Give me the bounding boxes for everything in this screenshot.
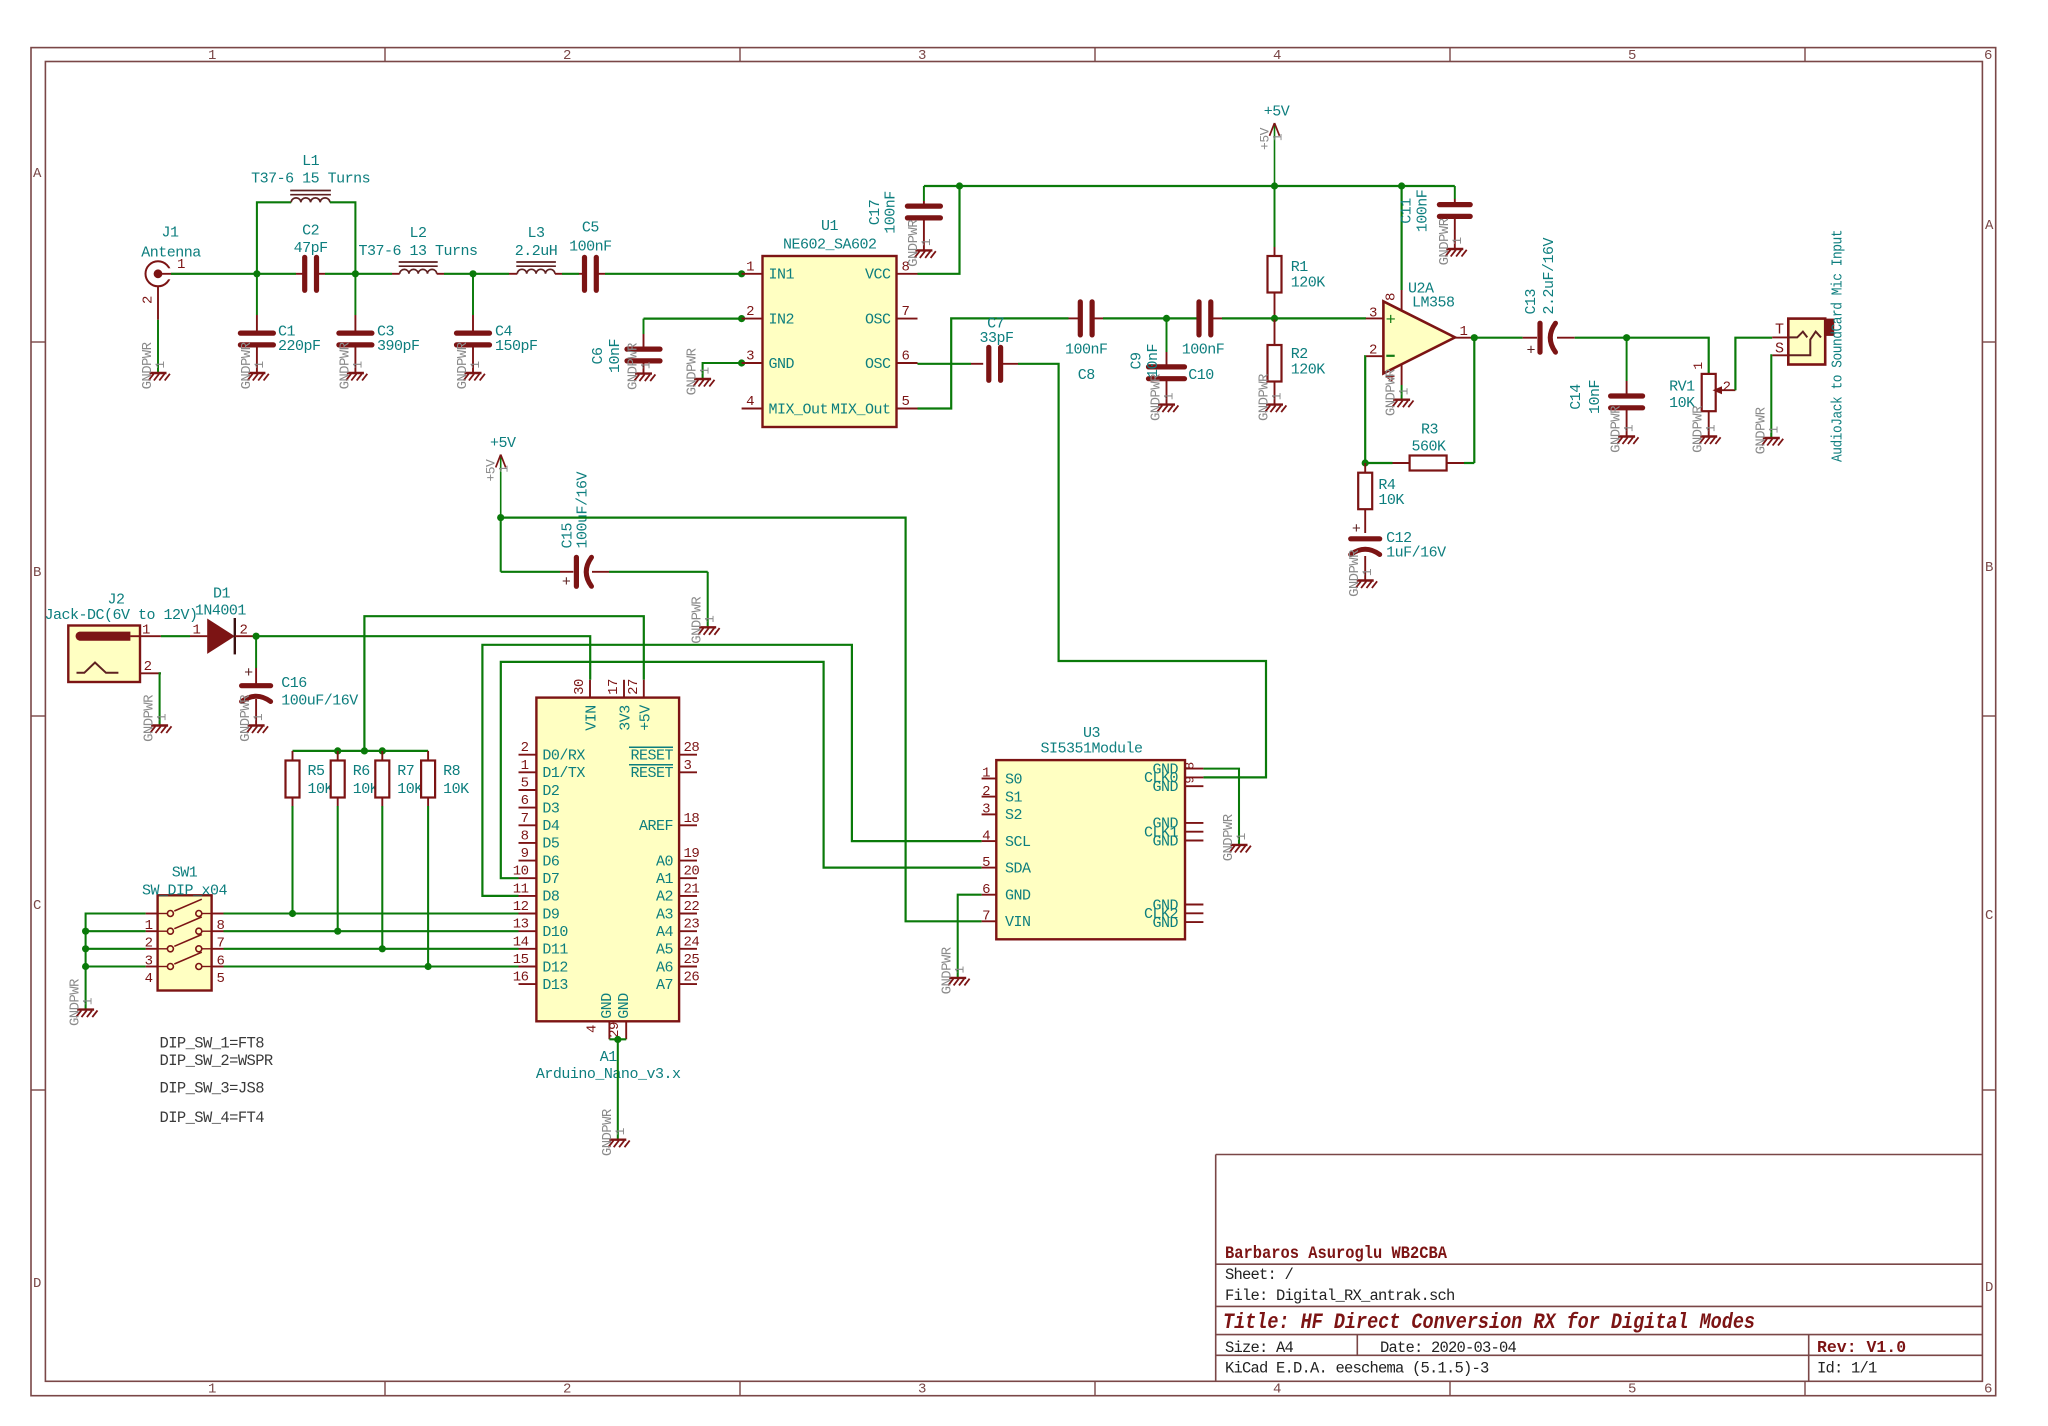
svg-text:DIP_SW_2=WSPR: DIP_SW_2=WSPR (160, 1052, 273, 1070)
svg-text:SI5351Module: SI5351Module (1040, 741, 1143, 758)
svg-text:1: 1 (982, 766, 990, 782)
junction rail at R6 (334, 747, 341, 754)
junction R5 at switch row (289, 910, 296, 917)
wire pull-up rail (293, 750, 429, 752)
svg-text:1: 1 (251, 713, 266, 721)
junction node A (antenna/C1/L1/C2) (253, 270, 260, 277)
capacitor C2 47pF (257, 223, 356, 291)
svg-text:B: B (33, 565, 41, 581)
svg-text:5: 5 (1628, 48, 1636, 64)
junction rail at U1 riser (956, 182, 963, 189)
wire SW1 row2 to Arduino D10 (224, 930, 519, 932)
svg-text:100nF: 100nF (1182, 342, 1225, 359)
svg-text:2: 2 (982, 784, 990, 800)
ground GNDPWR at R2 (1257, 373, 1287, 421)
svg-text:2: 2 (521, 740, 529, 756)
svg-text:C16: C16 (281, 675, 307, 692)
svg-text:Id: 1/1: Id: 1/1 (1817, 1360, 1877, 1378)
ground GNDPWR at C4 (455, 341, 485, 389)
svg-text:T37-6 13 Turns: T37-6 13 Turns (358, 243, 477, 260)
svg-text:C8: C8 (1078, 367, 1096, 384)
svg-text:3V3: 3V3 (618, 705, 635, 731)
resistor R3 560K (1365, 422, 1474, 471)
svg-text:NE602_SA602: NE602_SA602 (783, 237, 877, 254)
svg-text:25: 25 (684, 952, 700, 968)
wire op-amp - input to feedback node (1364, 356, 1367, 463)
ground GNDPWR at U1 pin3 (685, 347, 715, 395)
wire C8 to C10 (1103, 317, 1199, 319)
svg-text:A5: A5 (656, 942, 674, 959)
svg-text:D3: D3 (542, 800, 560, 817)
wire L1 loop right riser (330, 202, 356, 273)
resistor R1 120K (1268, 186, 1326, 318)
potentiometer RV1 10K (1669, 362, 1735, 437)
wire C3 to L2 (355, 273, 399, 275)
wire op-amp pin4 to ground (1401, 385, 1403, 400)
svg-text:4: 4 (585, 1025, 601, 1033)
svg-text:1: 1 (1460, 324, 1468, 340)
svg-text:C2: C2 (302, 223, 319, 240)
resistor R5 10K (286, 751, 334, 914)
svg-text:A1: A1 (600, 1049, 618, 1066)
svg-text:29: 29 (607, 1022, 623, 1038)
svg-text:9: 9 (521, 846, 529, 862)
wire RV1 wiper to jack tip (1735, 338, 1772, 391)
svg-text:U3: U3 (1083, 725, 1101, 742)
svg-text:1: 1 (468, 361, 483, 369)
svg-text:+5V: +5V (637, 705, 654, 731)
svg-text:R6: R6 (353, 763, 371, 780)
wire D1 to VIN node (253, 635, 256, 637)
ground GNDPWR at C6 (626, 342, 656, 390)
wire +5V rail (924, 185, 1455, 187)
svg-text:Jack-DC(6V to 12V): Jack-DC(6V to 12V) (45, 607, 198, 624)
svg-text:SW_DIP_x04: SW_DIP_x04 (142, 883, 228, 900)
svg-text:C13: C13 (1523, 288, 1540, 314)
wire Arduino D7 to SI5351 SDA (501, 662, 982, 878)
svg-text:120K: 120K (1291, 274, 1326, 291)
ground GNDPWR at C12 (1347, 549, 1377, 597)
capacitor C15 100uF/16V (501, 471, 708, 590)
svg-text:C17: C17 (867, 200, 884, 226)
svg-text:GND: GND (1152, 833, 1178, 850)
svg-text:SW1: SW1 (172, 865, 198, 882)
svg-text:10nF: 10nF (1587, 380, 1604, 414)
wire SW1 left common rail to ground (86, 914, 146, 1010)
svg-text:8: 8 (1183, 762, 1198, 769)
capacitor C17 100nF (867, 186, 940, 250)
svg-text:D13: D13 (542, 977, 568, 994)
svg-text:1: 1 (208, 48, 216, 64)
svg-text:J2: J2 (107, 592, 124, 609)
svg-text:+5V: +5V (1264, 104, 1290, 121)
svg-text:9: 9 (1183, 776, 1198, 783)
junction divider node at op-amp + input (1271, 315, 1278, 322)
svg-text:1: 1 (350, 361, 365, 369)
svg-text:2: 2 (240, 623, 248, 639)
svg-text:U1: U1 (821, 218, 839, 235)
junction SW row2 left (82, 928, 89, 935)
wire Arduino GND pins join (609, 1038, 626, 1040)
svg-text:D9: D9 (542, 906, 559, 923)
svg-text:OSC: OSC (865, 356, 891, 373)
wire L1 loop left riser (257, 202, 291, 273)
svg-text:S: S (1775, 340, 1784, 357)
svg-text:GND: GND (616, 993, 633, 1019)
svg-text:SDA: SDA (1005, 860, 1031, 877)
junction feedback node (1362, 459, 1369, 466)
capacitor C8 100nF (1065, 302, 1108, 384)
svg-text:C: C (33, 898, 41, 914)
svg-text:30: 30 (572, 679, 588, 695)
svg-text:4: 4 (1273, 1382, 1281, 1398)
svg-text:100nF: 100nF (569, 239, 612, 256)
wire U1 MIX_Out to coupling row (918, 318, 1069, 408)
ground GNDPWR at RV1 (1691, 405, 1721, 453)
wire Arduino D8 to SI5351 SCL (482, 645, 981, 896)
svg-text:VCC: VCC (865, 267, 891, 284)
svg-text:2: 2 (746, 304, 754, 320)
svg-text:A6: A6 (656, 959, 674, 976)
capacitor C4 150pF (457, 274, 538, 373)
svg-text:13: 13 (513, 917, 529, 933)
svg-text:120K: 120K (1291, 361, 1326, 378)
svg-text:220pF: 220pF (278, 338, 321, 355)
capacitor C16 100uF/16V (242, 636, 359, 725)
ground GNDPWR at C1 (239, 341, 269, 389)
svg-text:Rev: V1.0: Rev: V1.0 (1817, 1338, 1906, 1357)
svg-text:3: 3 (684, 758, 692, 774)
svg-text:DIP_SW_3=JS8: DIP_SW_3=JS8 (160, 1080, 265, 1098)
svg-text:23: 23 (684, 917, 700, 933)
svg-text:1uF/16V: 1uF/16V (1386, 545, 1446, 562)
capacitor C5 100nF (569, 220, 612, 291)
svg-text:1: 1 (639, 361, 654, 369)
connector J1 Antenna (141, 225, 202, 320)
svg-text:19: 19 (684, 846, 700, 862)
wire C6 to U1 IN2 (644, 318, 742, 320)
svg-text:1: 1 (1271, 133, 1286, 141)
svg-text:IN2: IN2 (769, 311, 795, 328)
svg-text:5: 5 (1628, 1382, 1636, 1398)
wire output riser to R3 (1473, 338, 1475, 463)
svg-text:1: 1 (497, 465, 512, 473)
wire SW1 row1 to Arduino D9 (224, 912, 519, 914)
ground GNDPWR at C3 (337, 341, 367, 389)
junction rail at +5V feed (361, 747, 368, 754)
svg-text:GND: GND (599, 993, 616, 1019)
svg-text:7: 7 (982, 909, 990, 925)
wire Arduino +5V pin to pull-up rail (364, 616, 643, 751)
svg-text:10nF: 10nF (1145, 344, 1162, 378)
svg-text:100nF: 100nF (1415, 190, 1432, 233)
svg-text:1: 1 (703, 615, 718, 623)
resistor R7 10K (375, 751, 423, 949)
svg-text:T37-6 15 Turns: T37-6 15 Turns (251, 171, 370, 188)
svg-text:1: 1 (1691, 362, 1706, 370)
svg-text:A7: A7 (656, 977, 673, 994)
svg-text:KiCad E.D.A. eeschema (5.1.5): KiCad E.D.A. eeschema (5.1.5)-3 (1225, 1360, 1489, 1378)
svg-text:10nF: 10nF (607, 339, 624, 373)
ground GNDPWR at C15 (690, 596, 720, 644)
junction VIN node (253, 633, 260, 640)
svg-text:D11: D11 (542, 942, 568, 959)
ground GNDPWR at SI5351 CLK0 return (1221, 813, 1251, 861)
svg-text:RESET: RESET (630, 765, 673, 782)
svg-text:1: 1 (1234, 833, 1249, 841)
wire SW1 row4 to Arduino D12 (224, 965, 519, 967)
svg-text:10K: 10K (443, 781, 469, 798)
junction at U1 pin3 (738, 359, 745, 366)
diode D1 1N4001 (190, 585, 253, 654)
wire SI5351 GND pin6 to ground (958, 895, 982, 978)
wire L2 to node C (437, 273, 473, 275)
svg-text:560K: 560K (1411, 439, 1446, 456)
svg-text:AudioJack to SoundCard Mic Inp: AudioJack to SoundCard Mic Input (1831, 230, 1847, 462)
svg-text:6: 6 (982, 882, 990, 898)
junction GND pins (614, 1036, 621, 1043)
ground GNDPWR at SW1 (68, 978, 98, 1026)
svg-text:S2: S2 (1005, 807, 1022, 824)
svg-text:GND: GND (1152, 779, 1178, 796)
svg-text:S0: S0 (1005, 771, 1023, 788)
svg-text:R3: R3 (1421, 422, 1439, 439)
svg-text:21: 21 (684, 881, 700, 897)
svg-text:1: 1 (208, 1382, 216, 1398)
svg-text:100nF: 100nF (1065, 342, 1108, 359)
svg-text:6: 6 (1984, 1382, 1992, 1398)
svg-text:1: 1 (1397, 387, 1412, 395)
wire +5V to SI5351 VIN (501, 518, 982, 922)
svg-text:17: 17 (606, 679, 622, 695)
svg-text:VIN: VIN (584, 705, 601, 731)
svg-text:C5: C5 (582, 220, 600, 237)
ground GNDPWR at J2 (142, 694, 172, 742)
module U3 SI5351Module (982, 725, 1204, 939)
capacitor C10 100nF (1182, 302, 1225, 384)
svg-text:D1: D1 (213, 585, 231, 602)
svg-text:3: 3 (918, 1382, 926, 1398)
svg-text:2.2uF/16V: 2.2uF/16V (1541, 237, 1558, 314)
svg-text:8: 8 (1384, 293, 1400, 301)
wire J1 pin2 to ground (157, 320, 159, 373)
svg-text:20: 20 (684, 864, 700, 880)
power symbol +5V (mid) (484, 435, 516, 517)
note DIP switch mode table (160, 1035, 273, 1128)
svg-text:1: 1 (1162, 392, 1177, 400)
svg-text:A: A (1985, 218, 1994, 234)
svg-text:Antenna: Antenna (141, 245, 201, 262)
module A1 Arduino_Nano_v3.x (513, 679, 700, 1083)
svg-text:Size: A4: Size: A4 (1225, 1339, 1294, 1357)
wire ground to U1 GND pin (703, 363, 742, 379)
ground GNDPWR at op-amp pin4 (1384, 368, 1414, 416)
svg-text:Date: 2020-03-04: Date: 2020-03-04 (1380, 1339, 1517, 1357)
wire op-amp power pin8 to rail (1400, 186, 1402, 290)
junction R6 at switch row (334, 928, 341, 935)
svg-text:2: 2 (144, 659, 152, 675)
junction R8 at switch row (425, 963, 432, 970)
ground GNDPWR at C16 (238, 694, 268, 742)
junction SW row4 left (82, 963, 89, 970)
svg-text:D2: D2 (542, 783, 559, 800)
capacitor C14 10nF (1568, 338, 1643, 437)
svg-text:+: + (562, 574, 571, 591)
svg-text:1: 1 (252, 361, 267, 369)
svg-text:15: 15 (513, 952, 529, 968)
svg-text:+: + (1386, 311, 1396, 330)
svg-text:1: 1 (698, 367, 713, 375)
svg-text:47pF: 47pF (294, 240, 328, 257)
capacitor C7 33pF (918, 315, 1019, 380)
capacitor C13 2.2uF/16V (1474, 237, 1626, 359)
svg-text:AREF: AREF (639, 818, 673, 835)
svg-text:28: 28 (684, 740, 700, 756)
capacitor C12 1uF/16V (1351, 521, 1446, 581)
junction node C (L2/C4/L3) (469, 270, 476, 277)
ground GNDPWR at C14 (1609, 405, 1639, 453)
svg-text:27: 27 (626, 679, 642, 695)
wire C7 to SI5351 CLK0 (1018, 364, 1266, 778)
svg-text:10K: 10K (1378, 492, 1404, 509)
svg-text:Barbaros Asuroglu WB2CBA: Barbaros Asuroglu WB2CBA (1225, 1244, 1447, 1264)
connector AudioJack to SoundCard Mic Input (1772, 230, 1847, 462)
resistor R4 10K (1358, 463, 1404, 533)
junction at U1 pin1 (738, 270, 745, 277)
op-amp U2A LM358 (1366, 281, 1475, 386)
wire C10 to op-amp + input (1222, 317, 1366, 319)
junction SW row3 left (82, 945, 89, 952)
svg-text:D12: D12 (542, 959, 568, 976)
svg-text:1: 1 (81, 997, 96, 1005)
junction at C9 tap (1163, 315, 1170, 322)
svg-text:S1: S1 (1005, 789, 1023, 806)
svg-text:D: D (33, 1276, 41, 1292)
svg-text:3: 3 (746, 349, 754, 365)
wire J2 pin2 to ground (160, 673, 161, 725)
svg-text:A: A (33, 166, 42, 182)
wire C4 to L3 (473, 273, 517, 275)
svg-text:33pF: 33pF (979, 330, 1013, 347)
svg-text:1: 1 (953, 966, 968, 974)
svg-text:4: 4 (982, 828, 990, 844)
svg-text:GND: GND (1152, 915, 1178, 932)
svg-text:8: 8 (521, 828, 529, 844)
svg-text:2: 2 (563, 1382, 571, 1398)
wire jack sleeve to ground (1770, 355, 1773, 438)
svg-text:+: + (1352, 521, 1361, 538)
IC U1 NE602_SA602 (742, 218, 918, 427)
svg-text:1: 1 (1360, 568, 1375, 576)
svg-text:5: 5 (217, 971, 225, 987)
inductor L2 T37-6 13 Turns (358, 225, 477, 274)
svg-text:C6: C6 (590, 347, 607, 365)
resistor R6 10K (331, 751, 379, 931)
svg-text:3: 3 (918, 48, 926, 64)
svg-text:3: 3 (1369, 305, 1377, 321)
svg-text:2: 2 (563, 48, 571, 64)
svg-text:Sheet: /: Sheet: / (1225, 1266, 1294, 1284)
capacitor C1 220pF (240, 274, 320, 373)
svg-text:+: + (1526, 342, 1535, 359)
inductor L3 2.2uH (515, 225, 558, 274)
resistor R8 10K (421, 751, 469, 967)
svg-text:J1: J1 (161, 225, 179, 242)
svg-text:7: 7 (902, 304, 910, 320)
ground GNDPWR at jack sleeve (1753, 406, 1783, 454)
svg-text:A0: A0 (656, 853, 674, 870)
wire C15 to ground (707, 572, 709, 628)
svg-text:26: 26 (684, 970, 700, 986)
svg-text:1: 1 (153, 361, 168, 369)
ground GNDPWR at Arduino (600, 1108, 630, 1156)
svg-text:5: 5 (521, 776, 529, 792)
junction rail at +5V symbol (1271, 182, 1278, 189)
capacitor C11 100nF (1399, 186, 1471, 249)
wire J1 to node A (171, 273, 257, 275)
svg-text:+5V: +5V (490, 435, 516, 452)
svg-text:7: 7 (521, 811, 529, 827)
svg-text:390pF: 390pF (377, 338, 420, 355)
svg-text:14: 14 (513, 934, 529, 950)
svg-text:6: 6 (1984, 48, 1992, 64)
svg-text:1: 1 (613, 1127, 628, 1135)
svg-text:RV1: RV1 (1669, 378, 1695, 395)
wire C13 node to RV1 (1627, 338, 1709, 374)
svg-text:MIX_Out: MIX_Out (831, 401, 891, 418)
svg-text:1: 1 (192, 623, 200, 639)
ground GNDPWR at C17 (906, 219, 936, 267)
junction node B (C2/C3/L2) (352, 270, 359, 277)
wire J2 to D1 (161, 635, 190, 637)
svg-text:R5: R5 (308, 763, 326, 780)
svg-text:100uF/16V: 100uF/16V (575, 471, 592, 548)
svg-text:22: 22 (684, 899, 700, 915)
svg-text:C11: C11 (1399, 198, 1416, 224)
svg-text:R7: R7 (397, 763, 414, 780)
svg-text:C9: C9 (1129, 352, 1146, 369)
svg-text:1: 1 (155, 713, 170, 721)
svg-text:1: 1 (1766, 426, 1781, 434)
svg-text:D: D (1985, 1280, 1993, 1296)
svg-text:R8: R8 (443, 763, 461, 780)
svg-text:24: 24 (684, 934, 700, 950)
junction at U1 pin2 (738, 315, 745, 322)
svg-text:1: 1 (521, 758, 529, 774)
svg-text:+: + (244, 665, 253, 682)
wire SW1 row3 to Arduino D11 (224, 948, 519, 950)
junction at C14 tap (1623, 334, 1630, 341)
ground GNDPWR at J1 (140, 341, 170, 389)
svg-text:1: 1 (1704, 424, 1719, 432)
svg-text:D8: D8 (542, 889, 560, 906)
svg-text:A4: A4 (656, 924, 674, 941)
wire L3 to C5 (555, 273, 579, 275)
svg-text:Title: HF Direct Conversion RX: Title: HF Direct Conversion RX for Digit… (1223, 1309, 1755, 1335)
svg-text:18: 18 (684, 811, 700, 827)
wire Arduino GND to ground (617, 1039, 619, 1139)
svg-text:RESET: RESET (630, 748, 673, 765)
svg-text:2: 2 (1369, 343, 1377, 359)
svg-text:1: 1 (1270, 392, 1285, 400)
svg-text:DIP_SW_4=FT4: DIP_SW_4=FT4 (160, 1109, 265, 1127)
power symbol +5V (top) (1257, 104, 1289, 187)
svg-text:GND: GND (769, 356, 795, 373)
svg-text:D5: D5 (542, 836, 560, 853)
svg-text:6: 6 (521, 793, 529, 809)
svg-text:LM358: LM358 (1412, 295, 1455, 312)
svg-text:IN1: IN1 (769, 267, 795, 284)
